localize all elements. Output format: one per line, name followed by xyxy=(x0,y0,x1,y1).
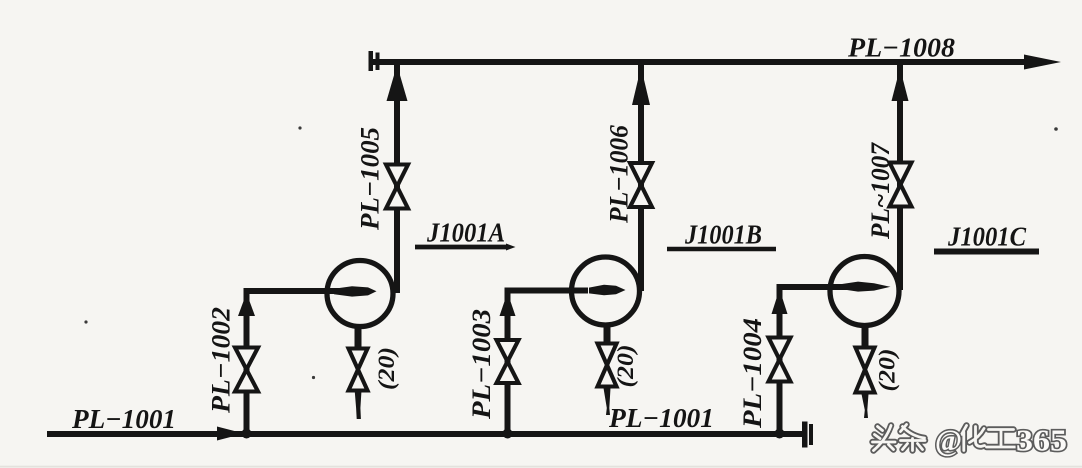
wire: pump A drain stub upper xyxy=(355,327,362,348)
pump J1001A circle xyxy=(327,261,393,327)
化 xyxy=(962,426,985,451)
valve PL-1005 on pump A discharge xyxy=(386,165,408,209)
wire: pump C drain stub lower (open end) xyxy=(862,394,869,418)
valve PL-1007 on pump C discharge xyxy=(890,163,912,207)
scan speck 4 xyxy=(312,376,315,379)
svg-text:PL−1008: PL−1008 xyxy=(847,33,956,63)
scan speck 2 xyxy=(1054,127,1058,131)
wire: pump A suction riser + horizontal run xyxy=(247,291,343,434)
wire: pump B drain stub upper xyxy=(604,325,611,343)
pump J1001A internal flow arrow xyxy=(334,286,377,296)
flow arrowhead on pump A discharge into PL-1008 xyxy=(387,65,408,101)
wire: pump C suction riser + horizontal run xyxy=(780,287,849,434)
drain valve (20) of pump C xyxy=(856,348,875,393)
wire: pump A discharge riser PL-1005 xyxy=(394,62,400,293)
工 xyxy=(987,430,1016,448)
wire: pump B drain stub lower (open end) xyxy=(604,388,611,415)
valve PL-1003 on pump B suction xyxy=(497,340,519,383)
valve PL-1006 on pump B discharge xyxy=(630,163,652,207)
watermark 头条 @化工365 xyxy=(873,423,1068,458)
junction node at PL-1001 / pump C riser xyxy=(775,429,785,439)
flow arrowhead on pump B discharge into PL-1008 xyxy=(632,67,650,105)
svg-text:PL−1002: PL−1002 xyxy=(207,307,236,414)
svg-text:PL−1006: PL−1006 xyxy=(605,125,634,224)
valve PL-1004 on pump C suction xyxy=(769,338,791,382)
头 xyxy=(873,426,896,451)
pipe-break cap at left end of PL-1008 xyxy=(369,51,380,71)
wire: pump C discharge riser PL-1007 xyxy=(897,62,903,290)
svg-text:PL~1007: PL~1007 xyxy=(866,142,895,240)
wire: pump A drain stub lower (open end) xyxy=(355,392,362,419)
wire: header pipe PL-1008 horizontal run xyxy=(371,59,1043,65)
svg-text:J1001A: J1001A xyxy=(426,218,505,248)
svg-text:365: 365 xyxy=(1016,423,1067,458)
scan speck 3 xyxy=(84,320,87,323)
flow arrowhead at right end of PL-1008 xyxy=(1024,55,1061,70)
svg-text:J1001C: J1001C xyxy=(947,222,1027,252)
svg-text:PL−1001: PL−1001 xyxy=(71,404,176,434)
flow arrowhead on pump A suction riser xyxy=(238,293,255,316)
drain valve (20) of pump A xyxy=(349,349,368,391)
pump J1001B circle xyxy=(572,257,640,325)
junction node at PL-1001 / pump B riser xyxy=(503,429,513,439)
flow arrowhead on pump B suction riser xyxy=(500,293,516,317)
svg-text:PL−1004: PL−1004 xyxy=(738,318,767,429)
wire: suction header pipe PL-1001 xyxy=(47,431,803,437)
wire: pump C drain stub upper xyxy=(862,326,869,348)
valve PL-1002 on pump A suction xyxy=(235,348,258,392)
条 xyxy=(901,425,926,451)
pump J1001C internal flow arrow xyxy=(842,282,891,292)
svg-text:J1001B: J1001B xyxy=(684,220,762,250)
scan speck 1 xyxy=(298,126,301,129)
pump J1001B internal flow arrow xyxy=(589,285,626,295)
flow arrowhead on pump C discharge into PL-1008 xyxy=(892,68,909,101)
drain valve (20) of pump B xyxy=(598,344,617,387)
scan smudge along bottom edge xyxy=(0,466,1082,468)
pump J1001C circle xyxy=(830,257,899,326)
wire: pump B discharge riser PL-1006 xyxy=(638,62,644,291)
wire: pump B suction riser + horizontal run xyxy=(508,291,589,435)
svg-text:(20): (20) xyxy=(374,347,399,390)
svg-text:PL−1005: PL−1005 xyxy=(356,127,385,231)
junction node at PL-1001 / pump A riser xyxy=(242,429,252,439)
flow arrowhead on PL-1001 xyxy=(217,427,244,441)
svg-text:PL−1003: PL−1003 xyxy=(467,309,496,420)
svg-text:(20): (20) xyxy=(875,349,900,392)
svg-text:(20): (20) xyxy=(613,345,638,388)
svg-text:PL−1001: PL−1001 xyxy=(608,403,714,433)
blind-end cap at right end of PL-1001 xyxy=(802,422,813,448)
flow arrowhead on pump C suction riser xyxy=(772,289,788,314)
svg-text:@: @ xyxy=(935,423,962,458)
